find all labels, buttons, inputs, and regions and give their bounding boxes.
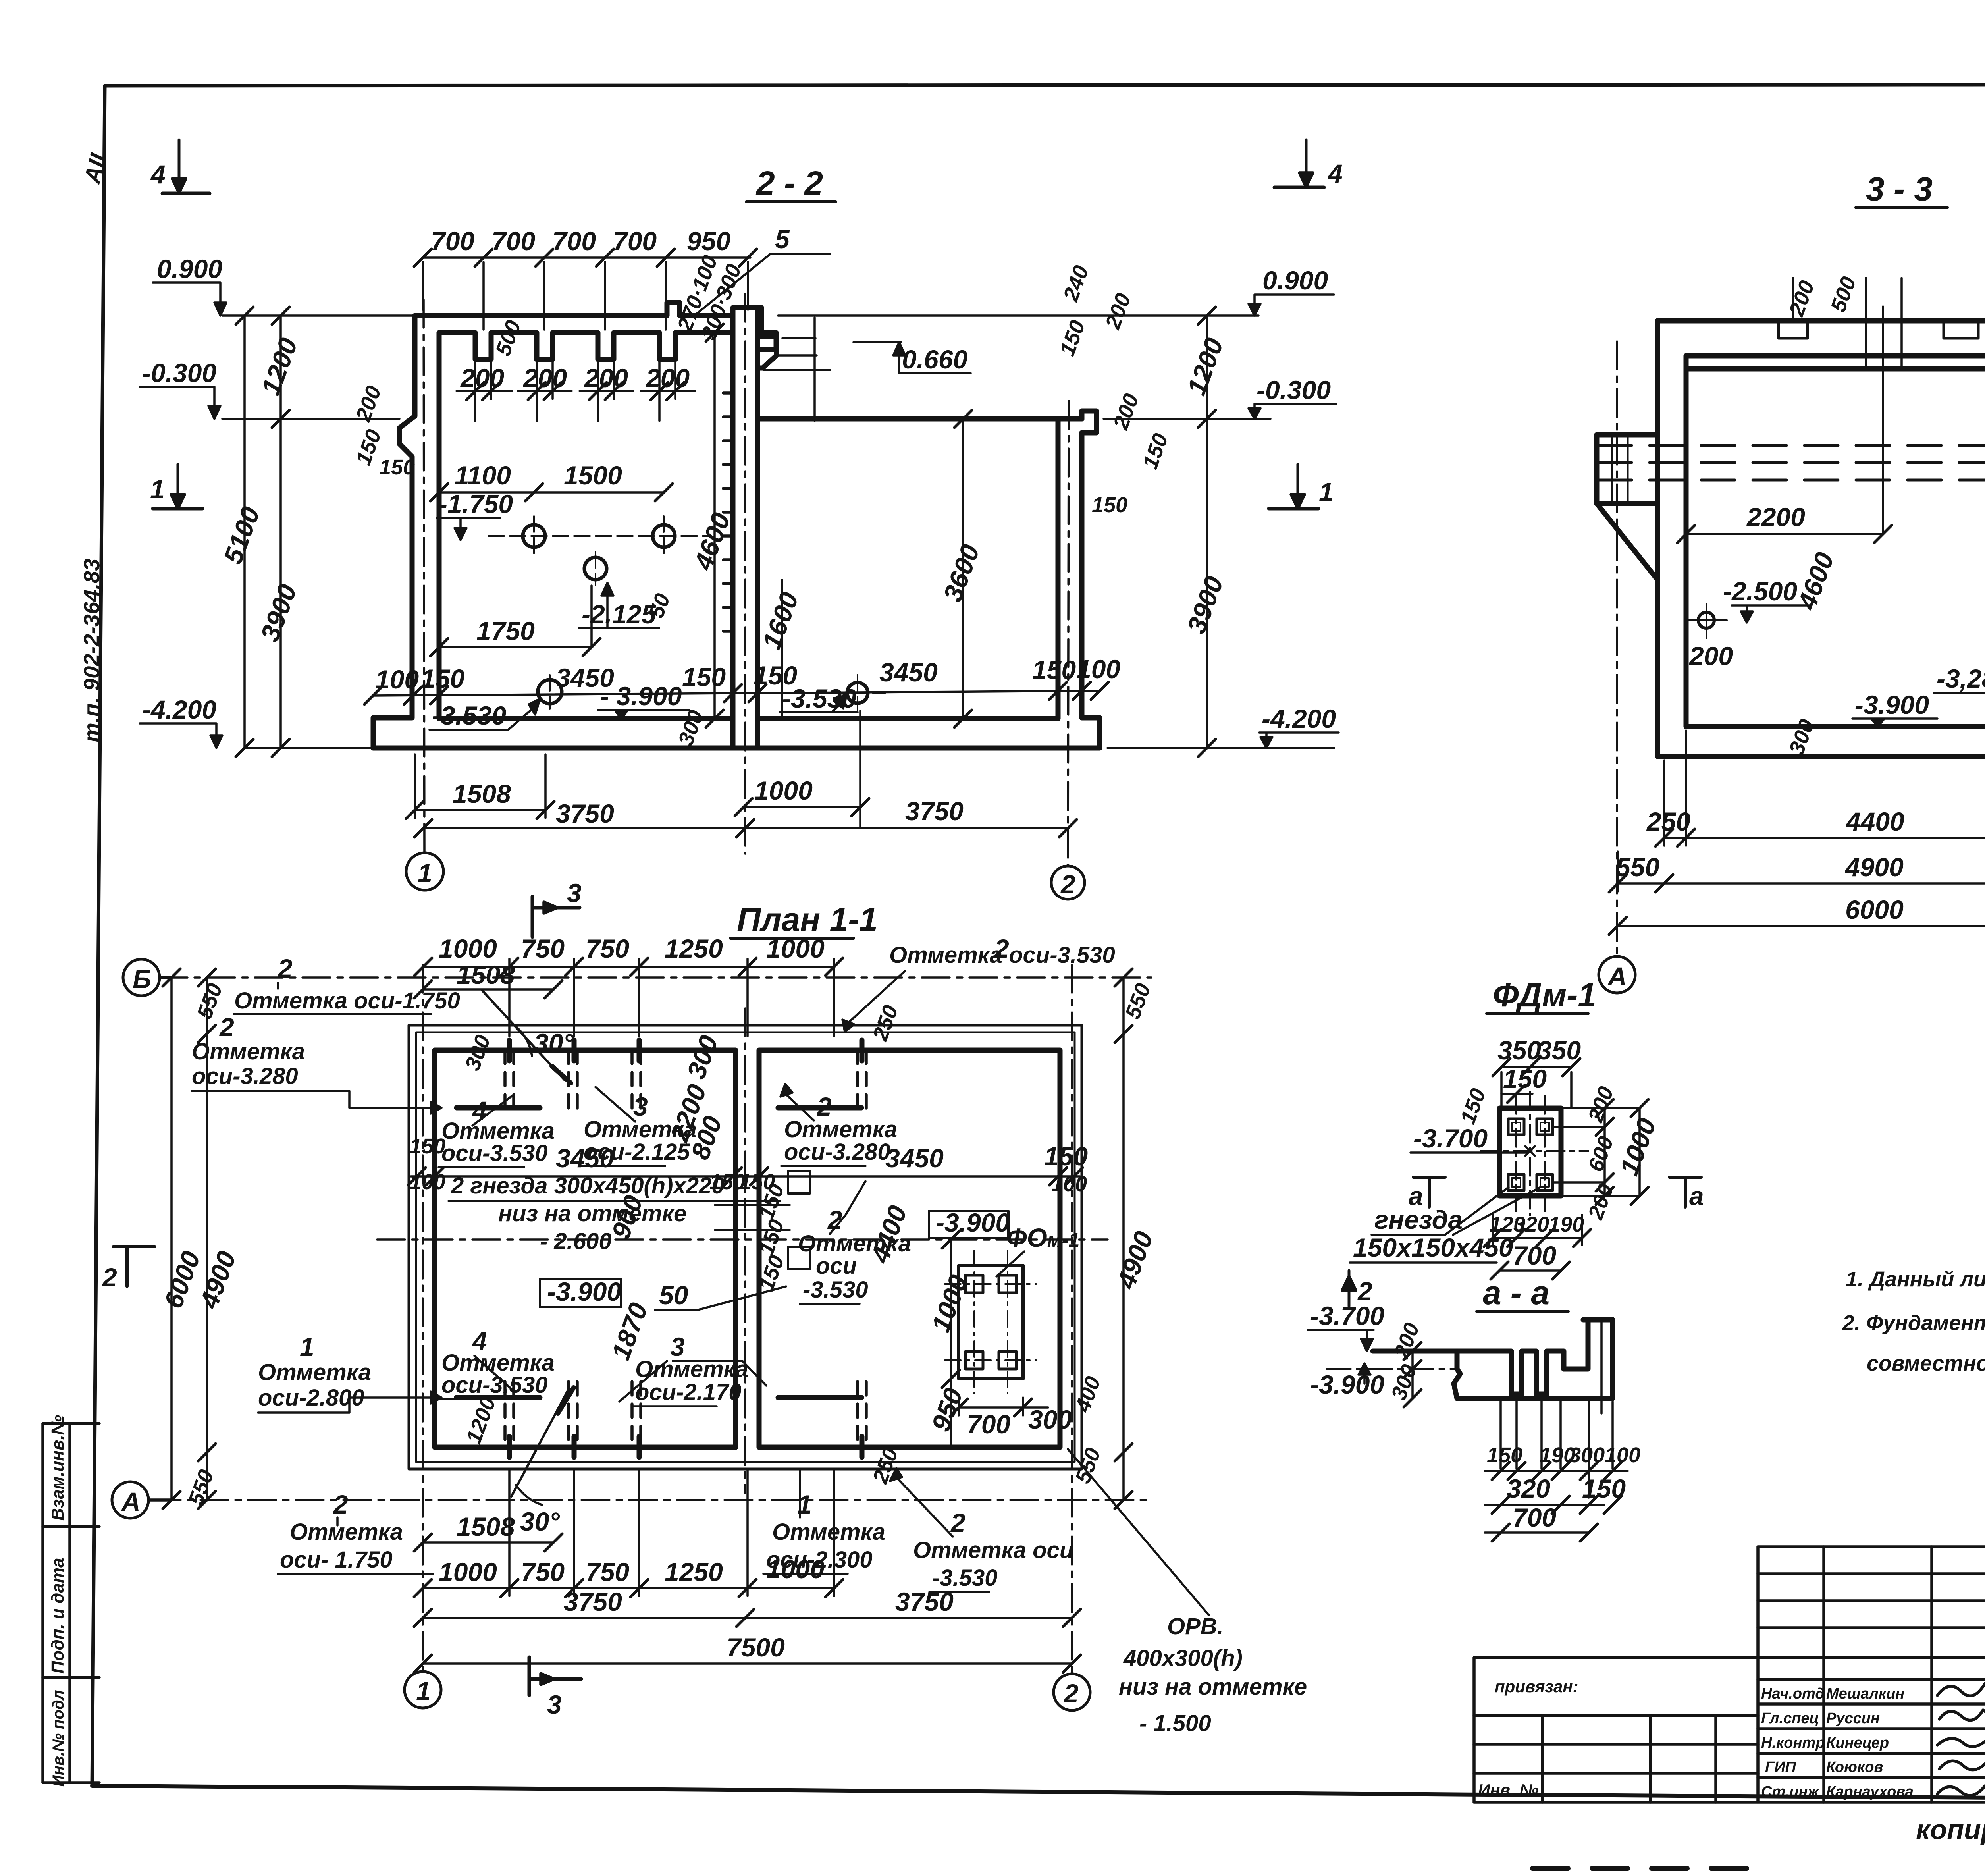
svg-text:1500: 1500 — [564, 461, 622, 490]
svg-text:2: 2 — [102, 1263, 117, 1292]
svg-text:150: 150 — [421, 664, 464, 693]
anchor pockets 4x — [1508, 1119, 1553, 1190]
30 deg diagonal top — [482, 990, 571, 1083]
svg-text:2200: 2200 — [1746, 502, 1805, 532]
svg-text:100: 100 — [1605, 1443, 1640, 1467]
axis circle 1 plan — [405, 1672, 441, 1708]
center cross mark — [1525, 1146, 1535, 1156]
svg-text:3750: 3750 — [556, 799, 614, 828]
svg-text:150: 150 — [1503, 1064, 1547, 1093]
left vertical dims 6000 4900 — [163, 969, 216, 1509]
svg-text:100: 100 — [410, 1170, 445, 1194]
dim 1000 950 at foundation — [942, 1231, 960, 1447]
bottom dim row2 550 4900 550 — [1609, 852, 1985, 892]
dim 150 — [1501, 1085, 1532, 1103]
svg-text:оси-2.125: оси-2.125 — [584, 1139, 690, 1165]
top dim row on axis B: 1000 750 750 1250 1000 — [414, 958, 843, 1036]
section mark 4 top left — [162, 140, 210, 193]
svg-text:150: 150 — [1582, 1474, 1626, 1503]
svg-text:1250: 1250 — [665, 934, 723, 963]
foundation FDm plan in right room — [945, 1251, 1036, 1394]
dims 350 350 — [1493, 1059, 1580, 1108]
boxed level -3.900 right room — [929, 1211, 1008, 1238]
svg-text:3450: 3450 — [556, 663, 614, 692]
svg-text:Инв.№ подл: Инв.№ подл — [50, 1690, 67, 1787]
svg-text:1750: 1750 — [476, 616, 535, 646]
svg-text:6000: 6000 — [1845, 895, 1904, 924]
svg-text:а - а: а - а — [1483, 1274, 1549, 1311]
30 deg diagonal bottom — [511, 1388, 574, 1496]
dashed pipe lines — [1598, 445, 1985, 480]
svg-text:3450: 3450 — [879, 657, 938, 687]
svg-text:оси-3.530: оси-3.530 — [441, 1372, 548, 1398]
right room walls — [759, 1050, 1060, 1447]
right chamber walls — [757, 411, 1097, 719]
svg-text:-1.750: -1.750 — [439, 489, 513, 519]
svg-text:-3.530: -3.530 — [803, 1277, 868, 1303]
left sidebar stamp cells — [43, 1423, 99, 1783]
svg-text:Инв. №: Инв. № — [1478, 1781, 1538, 1799]
svg-text:Ст.инж: Ст.инж — [1761, 1783, 1819, 1800]
svg-text:Отметка оси-1.750: Отметка оси-1.750 — [234, 988, 460, 1014]
svg-text:300: 300 — [1028, 1405, 1072, 1434]
dim 1200 right rotated — [1198, 307, 1216, 428]
svg-text:оси-3.530: оси-3.530 — [441, 1140, 548, 1166]
dim 3600 rotated — [954, 410, 972, 727]
dashed verticals below profile — [1501, 1320, 1613, 1498]
interior dims 1100 1500 — [430, 484, 673, 501]
svg-text:ОРВ.: ОРВ. — [1167, 1614, 1224, 1639]
pipe holes circles left chamber — [488, 516, 885, 711]
svg-text:Отметка: Отметка — [192, 1039, 305, 1064]
svg-text:950: 950 — [687, 226, 730, 256]
left room walls — [435, 1050, 736, 1447]
sump niches at middle wall — [715, 1171, 810, 1269]
svg-text:150: 150 — [1487, 1443, 1522, 1467]
svg-text:-0.300: -0.300 — [1257, 375, 1331, 405]
axis dash-dot lines 3-3 — [1617, 341, 1985, 955]
svg-text:750: 750 — [521, 934, 565, 963]
svg-text:А: А — [1607, 962, 1627, 991]
svg-text:-3.700: -3.700 — [1310, 1301, 1384, 1330]
dim 1600 rotated — [781, 580, 783, 719]
svg-text:Отметка: Отметка — [290, 1519, 403, 1545]
svg-text:1508: 1508 — [453, 779, 511, 808]
svg-text:200: 200 — [584, 363, 628, 393]
section mark 1 left — [153, 464, 202, 509]
axis circle 1 — [406, 853, 443, 890]
svg-text:700: 700 — [967, 1409, 1010, 1439]
svg-text:А: А — [121, 1487, 141, 1516]
section mark 3 top — [532, 897, 580, 937]
axis circle A plan — [112, 1482, 172, 1518]
svg-text:5: 5 — [775, 224, 790, 254]
dims 320 150 — [1485, 1496, 1621, 1514]
axis circle A — [1599, 956, 1635, 993]
dim 3900 right rotated — [1198, 419, 1216, 757]
console dim lines — [764, 318, 830, 421]
svg-text:200: 200 — [1688, 641, 1733, 671]
signatures grid — [1758, 1547, 1985, 1802]
axis circle 2 plan — [1054, 1674, 1090, 1710]
svg-text:2: 2 — [219, 1012, 234, 1042]
svg-text:Отметка: Отметка — [772, 1519, 885, 1545]
svg-text:150: 150 — [379, 455, 415, 479]
svg-text:350: 350 — [1497, 1035, 1541, 1065]
axis circle 2 — [1051, 866, 1085, 899]
dims 150 190 300 100 — [1485, 1462, 1628, 1480]
floor dim row 100 150 3450 150 150 3450 150 100 — [364, 682, 1108, 704]
svg-text:3: 3 — [567, 878, 582, 908]
svg-text:-3.900: -3.900 — [936, 1208, 1010, 1237]
svg-text:400х300(h): 400х300(h) — [1123, 1645, 1243, 1671]
svg-text:1: 1 — [150, 474, 165, 504]
svg-text:- 1.500: - 1.500 — [1139, 1710, 1211, 1736]
svg-text:150: 150 — [1092, 493, 1127, 517]
svg-text:-3,280: -3,280 — [1937, 664, 1985, 693]
svg-text:-4.200: -4.200 — [1262, 704, 1336, 733]
svg-text:1000: 1000 — [439, 1557, 497, 1587]
leader 5 — [697, 254, 830, 314]
svg-text:Мешалкин: Мешалкин — [1826, 1685, 1904, 1702]
dash-dot level line — [1327, 1368, 1457, 1370]
bottom dim 7500 — [414, 1655, 1081, 1672]
svg-text:2: 2 — [1060, 870, 1075, 899]
dim 1508 below — [406, 754, 554, 819]
svg-text:2 - 2: 2 - 2 — [755, 164, 823, 202]
svg-text:1250: 1250 — [665, 1557, 723, 1587]
dim 3750 3750 — [414, 819, 1077, 837]
plan outer double rectangle — [409, 1025, 1082, 1469]
svg-text:-3.900: -3.900 — [1310, 1370, 1384, 1399]
svg-text:1100: 1100 — [455, 461, 511, 490]
middle wall — [733, 308, 777, 748]
section mark 4 top right — [1274, 140, 1324, 187]
left chamber outer wall and footing — [373, 303, 1100, 748]
svg-text:0.660: 0.660 — [902, 345, 967, 374]
bottom dim row1 250 4400 250 — [1655, 731, 1985, 846]
ladder rungs on middle wall — [723, 393, 733, 631]
top dimension line 700x4+950 — [414, 249, 757, 330]
svg-text:копировал:: копировал: — [1916, 1814, 1985, 1845]
center lines — [1481, 1092, 1588, 1215]
svg-text:т.п. 902-2-364.83: т.п. 902-2-364.83 — [79, 559, 104, 742]
svg-text:-3.530: -3.530 — [432, 701, 506, 730]
svg-text:700: 700 — [491, 226, 535, 256]
svg-text:Коюков: Коюков — [1826, 1759, 1883, 1776]
svg-text:4: 4 — [1327, 159, 1343, 188]
svg-text:2: 2 — [333, 1490, 348, 1519]
svg-text:100: 100 — [1077, 654, 1120, 684]
svg-text:1000: 1000 — [439, 934, 497, 963]
svg-text:4400: 4400 — [1845, 807, 1904, 836]
svg-text:2: 2 — [277, 954, 293, 983]
svg-text:750: 750 — [586, 1557, 629, 1587]
svg-text:1: 1 — [416, 1676, 431, 1706]
svg-text:700: 700 — [552, 226, 596, 256]
section mark 2 left — [113, 1247, 155, 1286]
bottom dim row 1000 750 750 1250 1000 — [414, 1469, 843, 1597]
svg-text:Руссин: Руссин — [1826, 1710, 1880, 1727]
right vertical dim 4900 — [1115, 969, 1132, 1509]
svg-text:0.900: 0.900 — [1262, 266, 1328, 295]
svg-text:-2.125: -2.125 — [582, 600, 656, 629]
right rotated dims 200 600 200 1000 — [1554, 1099, 1648, 1205]
level -2.500 with circle — [1687, 603, 1727, 638]
svg-text:Отметка: Отметка — [258, 1359, 371, 1385]
top dim 1508 — [414, 981, 562, 998]
section mark 1 right — [1269, 464, 1318, 509]
svg-text:150: 150 — [682, 662, 726, 692]
svg-text:привязан:: привязан: — [1495, 1677, 1578, 1696]
svg-text:320: 320 — [1513, 1213, 1549, 1236]
wall slot ticks — [509, 1040, 862, 1457]
left vertical dims 1200 5100 3900 — [236, 307, 289, 757]
profile a-a — [1373, 1320, 1613, 1398]
ORV leader and text — [1068, 1449, 1209, 1615]
svg-text:0.900: 0.900 — [157, 254, 222, 283]
svg-text:750: 750 — [586, 934, 629, 963]
svg-text:4: 4 — [150, 160, 166, 189]
svg-text:190: 190 — [1548, 1213, 1584, 1236]
dim 1000 right chamber — [735, 711, 869, 828]
dim 700 300 at foundation — [950, 1398, 1048, 1416]
interior dim row 150 3450 150 150 3450 150 — [408, 1168, 1083, 1185]
svg-text:150: 150 — [1044, 1141, 1088, 1171]
svg-text:оси: оси — [816, 1253, 857, 1279]
svg-text:3750: 3750 — [895, 1587, 954, 1616]
2200 dim inside — [1677, 307, 1892, 543]
svg-text:Н.контр: Н.контр — [1761, 1735, 1825, 1751]
svg-text:320: 320 — [1507, 1474, 1550, 1503]
svg-text:200: 200 — [460, 363, 504, 393]
svg-text:Взам.инв.№: Взам.инв.№ — [48, 1415, 67, 1521]
svg-text:Кинецер: Кинецер — [1826, 1735, 1889, 1751]
svg-text:2: 2 — [1063, 1679, 1079, 1708]
svg-text:350: 350 — [1537, 1035, 1581, 1065]
svg-text:150: 150 — [410, 1134, 445, 1158]
svg-text:Б: Б — [133, 964, 151, 994]
slot dashes left room — [505, 1050, 866, 1447]
svg-text:150: 150 — [754, 661, 797, 690]
svg-text:3450: 3450 — [885, 1143, 944, 1173]
svg-text:3750: 3750 — [564, 1587, 622, 1616]
svg-text:Карнаухова: Карнаухова — [1826, 1783, 1914, 1800]
opening marks on room inner walls — [457, 1108, 861, 1398]
svg-text:7500: 7500 — [727, 1633, 785, 1662]
bottom dim 3750 3750 — [414, 1609, 1081, 1627]
svg-text:4900: 4900 — [1844, 852, 1904, 882]
svg-text:200: 200 — [522, 363, 567, 393]
axis circle B plan — [123, 959, 172, 996]
svg-text:2. Фундамент под оборудовани: 2. Фундамент под оборудование бетонирова… — [1842, 1311, 1985, 1335]
bottom dim row3 6000 — [1609, 917, 1985, 935]
svg-text:2 гнезда 300х450(h)х220: 2 гнезда 300х450(h)х220 — [451, 1173, 725, 1199]
svg-text:3750: 3750 — [905, 796, 964, 826]
svg-text:совместно с днищем камеры.: совместно с днищем камеры. — [1867, 1352, 1985, 1375]
svg-text:1000: 1000 — [766, 934, 825, 963]
svg-text:низ на отметке: низ на отметке — [1119, 1674, 1307, 1700]
svg-text:100: 100 — [375, 665, 419, 694]
svg-text:50: 50 — [659, 1280, 688, 1310]
svg-text:250: 250 — [1646, 807, 1690, 836]
plan axis lines dash-dot — [153, 965, 1151, 1674]
svg-text:700: 700 — [613, 226, 657, 256]
svg-text:700: 700 — [1513, 1241, 1556, 1270]
svg-text:3 - 3: 3 - 3 — [1866, 170, 1933, 208]
svg-text:300: 300 — [1569, 1443, 1605, 1467]
svg-text:-4.200: -4.200 — [142, 695, 216, 724]
svg-text:700: 700 — [431, 226, 474, 256]
svg-text:Нач.отд: Нач.отд — [1761, 1685, 1825, 1702]
svg-text:-3.900: -3.900 — [1855, 690, 1929, 719]
svg-text:1. Данный лист читать с ли: 1. Данный лист читать с листом АС-30. — [1846, 1267, 1985, 1291]
svg-text:Отметка оси-3.530: Отметка оси-3.530 — [889, 942, 1115, 968]
svg-text:750: 750 — [521, 1557, 565, 1587]
svg-text:низ на отметке: низ на отметке — [498, 1201, 686, 1226]
svg-text:План 1-1: План 1-1 — [737, 901, 878, 938]
svg-text:Отметка оси: Отметка оси — [913, 1537, 1073, 1563]
svg-text:- 2.600: - 2.600 — [540, 1228, 612, 1254]
svg-text:гнезда: гнезда — [1374, 1205, 1463, 1234]
dim 4600 rotated — [706, 324, 723, 727]
svg-text:Отметка: Отметка — [784, 1116, 897, 1142]
svg-text:ГИП: ГИП — [1765, 1759, 1796, 1776]
svg-text:700: 700 — [1513, 1503, 1556, 1532]
svg-text:оси- 1.750: оси- 1.750 — [280, 1547, 393, 1573]
svg-text:ФДм-1: ФДм-1 — [1493, 976, 1596, 1014]
boxed level -3.900 left room — [540, 1279, 621, 1307]
foundation plan rect — [1499, 1108, 1561, 1196]
svg-text:оси-3.280: оси-3.280 — [784, 1139, 890, 1165]
svg-text:1000: 1000 — [754, 776, 813, 805]
svg-text:1: 1 — [418, 858, 432, 888]
svg-text:1508: 1508 — [457, 1512, 515, 1541]
section mark 3 bottom — [529, 1657, 581, 1695]
section mark 2 up arrow — [1342, 1271, 1356, 1306]
svg-text:3: 3 — [547, 1690, 562, 1719]
signatures squiggles — [1937, 1683, 1985, 1795]
a-a section marks — [1413, 1177, 1445, 1207]
dim 700 a-a — [1485, 1524, 1598, 1541]
svg-text:550: 550 — [1616, 852, 1659, 882]
svg-text:оси-2.170: оси-2.170 — [635, 1379, 742, 1405]
svg-text:30°: 30° — [520, 1507, 560, 1536]
signature names — [1761, 1685, 1914, 1800]
svg-text:100: 100 — [1051, 1172, 1087, 1196]
svg-text:150х150х450: 150х150х450 — [1353, 1233, 1513, 1262]
svg-text:2: 2 — [950, 1508, 966, 1537]
dim 1750 — [430, 586, 600, 656]
svg-text:оси-2.300: оси-2.300 — [766, 1547, 873, 1573]
dim 700 — [1491, 1262, 1570, 1279]
svg-text:1508: 1508 — [457, 960, 515, 989]
left chamber interior ceiling with notches — [439, 316, 733, 719]
svg-text:Гл.спец: Гл.спец — [1761, 1710, 1819, 1727]
svg-text:150: 150 — [1032, 655, 1076, 684]
svg-text:Подп. и дата: Подп. и дата — [48, 1558, 67, 1674]
notch 200 dims — [457, 359, 695, 421]
svg-text:1: 1 — [300, 1332, 314, 1361]
svg-text:-3.700: -3.700 — [1413, 1124, 1488, 1153]
left flange — [1597, 435, 1657, 580]
scan marks bottom edge — [1532, 1866, 1985, 1868]
svg-text:-2.500: -2.500 — [1723, 576, 1797, 606]
svg-text:-3.900: -3.900 — [547, 1277, 621, 1306]
svg-text:200: 200 — [645, 363, 690, 393]
axis dash-dot lines section 2-2 — [424, 294, 1069, 866]
bottom dim 1508 — [414, 1534, 562, 1551]
svg-text:2: 2 — [827, 1205, 842, 1234]
svg-text:а: а — [1689, 1181, 1704, 1211]
outer box — [1657, 321, 1985, 756]
dims 120 320 190 — [1484, 1215, 1591, 1247]
svg-text:30°: 30° — [534, 1028, 574, 1058]
top notches — [1779, 321, 1978, 338]
privyazan box grid — [1474, 1658, 1758, 1802]
svg-text:-0.300: -0.300 — [142, 358, 216, 388]
svg-text:1: 1 — [1319, 477, 1334, 507]
